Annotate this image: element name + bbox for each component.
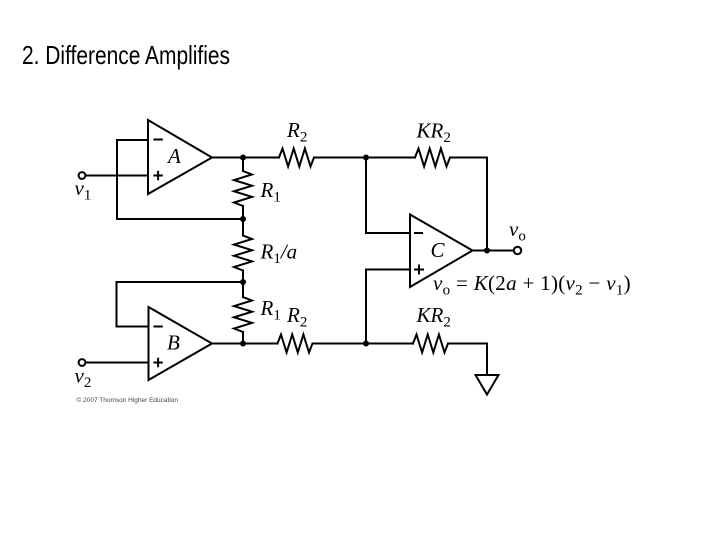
svg-text:vo = K(2a + 1)(v2 − v1): vo = K(2a + 1)(v2 − v1) [433, 271, 631, 299]
svg-text:C: C [431, 238, 446, 262]
svg-text:R1/a: R1/a [260, 240, 298, 268]
svg-text:v2: v2 [75, 364, 92, 392]
svg-text:2. Difference Amplifies: 2. Difference Amplifies [22, 40, 230, 70]
svg-text:vo: vo [509, 217, 526, 245]
svg-text:© 2007 Thomson Higher Educatio: © 2007 Thomson Higher Education [77, 396, 179, 404]
svg-text:R2: R2 [286, 118, 307, 146]
svg-text:A: A [166, 144, 181, 168]
svg-text:B: B [167, 331, 180, 355]
svg-text:KR2: KR2 [416, 119, 451, 147]
svg-text:R1: R1 [260, 178, 281, 206]
svg-text:R1: R1 [260, 296, 281, 324]
svg-text:v1: v1 [75, 176, 92, 204]
svg-text:KR2: KR2 [416, 303, 451, 331]
svg-text:R2: R2 [286, 303, 307, 331]
